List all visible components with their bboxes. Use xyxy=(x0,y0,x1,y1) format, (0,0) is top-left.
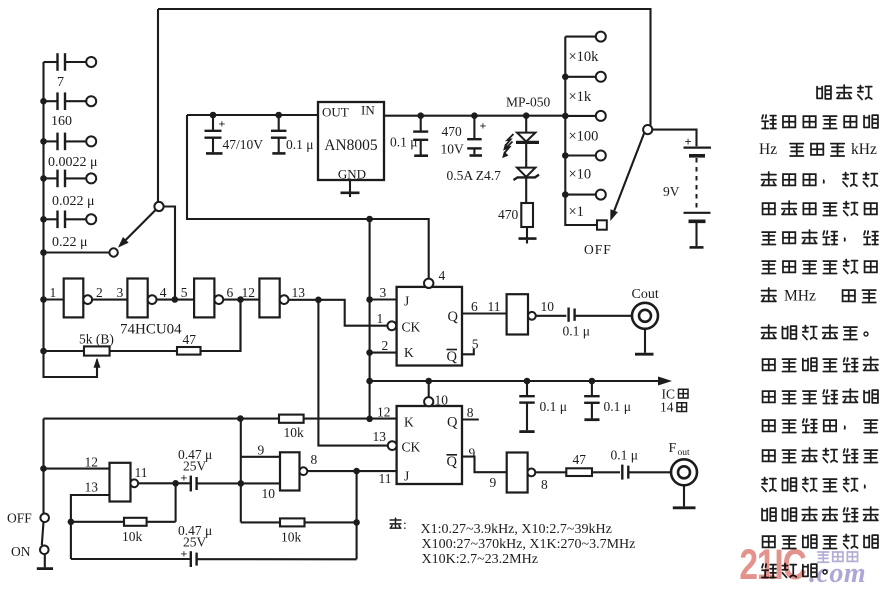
svg-text:9V: 9V xyxy=(663,184,680,199)
node OFF contact switch S2 xyxy=(40,514,49,523)
wire U4a output xyxy=(138,482,190,484)
capacitor C14 0.47u 25V xyxy=(178,447,212,491)
resistor R2 47 xyxy=(177,332,201,355)
svg-text:8: 8 xyxy=(541,477,548,492)
inverter U1a xyxy=(64,279,92,318)
watermark dianziwang xyxy=(818,552,858,562)
svg-text:13: 13 xyxy=(373,429,387,444)
wire ON/OFF power branch xyxy=(42,419,44,514)
capacitor C1 7 xyxy=(44,53,97,90)
ground Fout xyxy=(673,485,696,508)
svg-text:MHz: MHz xyxy=(784,288,816,305)
svg-text:CK: CK xyxy=(402,320,421,335)
capacitor C2 160 xyxy=(44,92,97,129)
svg-text:0.1 μ: 0.1 μ xyxy=(540,399,568,414)
wire drop to FF2 clock xyxy=(318,300,387,446)
flip-flop U3b JK xyxy=(397,406,462,484)
svg-text:kHz: kHz xyxy=(851,141,877,158)
node switch pole S1b xyxy=(643,125,652,134)
node pin13 junction xyxy=(315,297,322,304)
capacitor C4 0.022 μ xyxy=(44,170,97,209)
svg-text:13: 13 xyxy=(292,285,306,300)
node rail junctions xyxy=(425,378,432,385)
svg-text:F: F xyxy=(669,441,677,456)
capacitor C11 0.1u xyxy=(519,381,567,432)
svg-text:47/10V: 47/10V xyxy=(223,137,264,152)
connector J1 Cout xyxy=(632,287,659,329)
gate U4a xyxy=(110,463,139,502)
battery BT1 9V xyxy=(663,135,711,247)
wire U4b output to FF2 J xyxy=(307,470,396,472)
svg-text:X1:0.27~3.9kHz, X10:2.7~39kHz: X1:0.27~3.9kHz, X10:2.7~39kHz xyxy=(421,522,612,537)
resistor R3 10k xyxy=(279,415,304,440)
resistor R6 10k xyxy=(280,518,305,544)
svg-text:X100:27~370kHz, X1K:270~3.7M: X100:27~370kHz, X1K:270~3.7MHz xyxy=(422,537,636,552)
node pin6/12 junction xyxy=(237,296,244,303)
wire top power rail xyxy=(158,9,651,125)
svg-text:6: 6 xyxy=(471,299,478,314)
wire IN rail xyxy=(384,115,565,117)
svg-text:4: 4 xyxy=(439,268,446,283)
svg-text:11: 11 xyxy=(488,299,501,314)
svg-text:5: 5 xyxy=(181,285,188,300)
svg-text:9: 9 xyxy=(469,446,476,461)
capacitor C12 0.1u xyxy=(584,381,631,420)
node tap ×10 xyxy=(562,151,606,183)
wire pot row xyxy=(44,350,85,352)
svg-text:MP-050: MP-050 xyxy=(506,95,551,110)
node ON contact xyxy=(40,546,49,555)
wire Q1 output xyxy=(462,312,507,314)
wire chain links xyxy=(92,299,127,301)
resistor R1 470 xyxy=(498,203,533,227)
svg-text:47: 47 xyxy=(183,332,197,347)
capacitor C7 0.1u xyxy=(271,115,314,153)
svg-text:13: 13 xyxy=(85,480,99,495)
node FF1 pin4 bubble xyxy=(424,279,433,288)
svg-text:2: 2 xyxy=(382,338,389,353)
wire feedback vertical xyxy=(356,471,358,559)
svg-text:0.1 μ: 0.1 μ xyxy=(286,137,314,152)
wire inverter chain input from bus xyxy=(44,298,64,300)
svg-text:CK: CK xyxy=(402,440,421,455)
svg-text:OFF: OFF xyxy=(7,511,32,526)
svg-text:×1k: ×1k xyxy=(569,89,592,105)
wire Q1bar stub pin5 xyxy=(462,349,474,355)
connector J2 Fout xyxy=(669,441,698,485)
svg-text:7: 7 xyxy=(57,75,64,90)
ground below R1 xyxy=(519,227,537,244)
wire pin13 input loop xyxy=(71,495,110,559)
svg-text:×10k: ×10k xyxy=(569,49,600,65)
svg-text:×1: ×1 xyxy=(569,204,584,220)
svg-text:470: 470 xyxy=(498,207,519,222)
svg-text:5k (B): 5k (B) xyxy=(79,332,114,347)
wire R4 to C13 xyxy=(592,471,620,473)
wire Q2bar to buffer xyxy=(462,457,507,473)
wire J1 xyxy=(370,298,397,300)
wire to R4 xyxy=(535,471,566,473)
svg-text:6: 6 xyxy=(227,285,234,300)
wire multiplier tap bus xyxy=(565,37,597,225)
wire bottom return xyxy=(71,558,191,560)
node tap ×10k xyxy=(565,32,606,65)
capacitor C3 0.0022 μ xyxy=(44,133,98,170)
wire S1a wiper arm with arrow xyxy=(120,210,156,246)
watermark .com xyxy=(809,558,866,589)
gate U4b xyxy=(280,452,307,490)
wire battery feed xyxy=(652,130,696,147)
node switch pole S1a xyxy=(154,202,163,211)
svg-text:9: 9 xyxy=(258,443,265,458)
wire U1d output to flip-flop clock xyxy=(289,300,387,326)
watermark 21IC xyxy=(739,541,806,589)
svg-text:K: K xyxy=(404,415,414,430)
LED light arrows xyxy=(504,134,514,157)
svg-text:Cout: Cout xyxy=(632,287,659,302)
ground regulator GND xyxy=(341,180,360,197)
capacitor C9 470/10V xyxy=(441,116,487,157)
svg-text:1: 1 xyxy=(50,285,57,300)
node FF2 CK bubble xyxy=(388,441,397,450)
resistor R4 47 xyxy=(566,452,592,476)
svg-text:0.1 μ: 0.1 μ xyxy=(604,399,632,414)
svg-text:10k: 10k xyxy=(281,530,302,545)
inverter U1f buffer xyxy=(507,453,536,493)
wire C13 to Fout jack xyxy=(628,471,671,473)
node OFF contact xyxy=(584,220,612,257)
wire capacitor-bank common bus xyxy=(44,62,98,377)
svg-text:AN8005: AN8005 xyxy=(324,137,378,154)
ground below S2 xyxy=(37,554,53,569)
svg-text::: : xyxy=(403,517,407,532)
svg-text:×100: ×100 xyxy=(569,129,599,145)
svg-text:74HCU04: 74HCU04 xyxy=(120,322,182,338)
svg-text:+: + xyxy=(480,119,487,133)
svg-text:0.022 μ: 0.022 μ xyxy=(52,194,95,209)
svg-text:12: 12 xyxy=(242,285,256,300)
svg-text:470: 470 xyxy=(442,124,463,139)
svg-text:Q: Q xyxy=(448,309,459,325)
svg-text:+: + xyxy=(181,471,188,485)
svg-text:ON: ON xyxy=(11,544,31,559)
resistor R5 10k xyxy=(122,518,147,544)
svg-text:0.22 μ: 0.22 μ xyxy=(52,235,88,250)
wire S1b wiper arm xyxy=(612,133,644,217)
wire pin9 input xyxy=(241,456,280,458)
wire pin12 input xyxy=(44,468,110,470)
wire S2 blade xyxy=(42,522,44,545)
node pin4/5 junction xyxy=(172,296,179,303)
svg-text:160: 160 xyxy=(51,114,72,129)
svg-text:IN: IN xyxy=(361,103,375,118)
node direct contact position xyxy=(44,248,118,256)
node FF1 CK bubble xyxy=(387,321,396,330)
svg-text:out: out xyxy=(678,448,691,458)
svg-text:Q: Q xyxy=(447,349,458,365)
svg-text:21IC: 21IC xyxy=(739,541,806,589)
svg-text:OUT: OUT xyxy=(322,105,349,120)
wire S1a pole to inverter input supply drop xyxy=(164,207,175,297)
svg-text:10: 10 xyxy=(435,393,449,408)
inverter U1b xyxy=(127,279,156,318)
capacitor C5 0.22 μ xyxy=(44,211,97,251)
wire branch vertical xyxy=(240,419,242,523)
inverter U1c xyxy=(194,279,223,318)
wire to coupling cap xyxy=(536,315,567,317)
svg-text:0.5A Z4.7: 0.5A Z4.7 xyxy=(447,168,502,183)
wire K1 xyxy=(370,352,397,354)
svg-text:K: K xyxy=(404,345,414,360)
wire Q2 stub pin8 xyxy=(462,418,479,420)
text column right xyxy=(759,85,878,577)
label note xyxy=(390,518,401,528)
flip-flop U3a JK xyxy=(397,287,462,366)
inverter U1d xyxy=(259,279,288,318)
svg-text:9: 9 xyxy=(490,475,497,490)
inverter U1e buffer xyxy=(507,294,536,334)
svg-text:4: 4 xyxy=(160,285,167,300)
wire OUT rail xyxy=(187,114,318,116)
capacitor C6 47/10V xyxy=(205,115,264,153)
capacitor C13 0.1u xyxy=(611,448,639,480)
svg-text:10: 10 xyxy=(262,486,276,501)
wire C14 to U4b input xyxy=(197,482,280,484)
wire K2 row with R3 xyxy=(44,418,280,420)
svg-text:J: J xyxy=(404,294,409,309)
svg-text:+: + xyxy=(219,117,226,131)
capacitor C10 0.1u xyxy=(563,308,591,339)
potentiometer RP1 5k(B) xyxy=(79,332,114,368)
wire regulator OUT loop feeding logic rail xyxy=(187,115,429,279)
svg-text:5: 5 xyxy=(472,337,479,352)
wire R2 to pin6 node xyxy=(201,300,241,352)
svg-text:J: J xyxy=(404,469,409,484)
op-amp U2 AN8005 regulator xyxy=(318,102,384,182)
wire feedback drop pin6 xyxy=(239,300,241,352)
node tap ×1 xyxy=(562,190,606,220)
capacitor C15 0.47u 25V xyxy=(178,523,212,567)
svg-text:Q: Q xyxy=(447,454,458,470)
node tap ×100 xyxy=(562,111,606,145)
svg-text:Hz: Hz xyxy=(759,141,777,158)
svg-text:0.0022 μ: 0.0022 μ xyxy=(48,155,98,170)
svg-text:10k: 10k xyxy=(284,425,305,440)
svg-text:10V: 10V xyxy=(441,142,465,157)
capacitor C8 0.1u xyxy=(390,116,428,156)
node bus junctions xyxy=(40,98,47,105)
svg-text:0.1 μ: 0.1 μ xyxy=(390,135,418,150)
svg-text:X10K:2.7~23.2MHz: X10K:2.7~23.2MHz xyxy=(422,552,538,567)
svg-text:12: 12 xyxy=(377,405,391,420)
wire output to R5 xyxy=(175,483,177,522)
ground Cout xyxy=(635,329,654,354)
wire cap to Cout jack xyxy=(575,315,632,317)
wire left drop to range switch pole xyxy=(157,9,159,202)
svg-text:GND: GND xyxy=(338,167,366,182)
svg-text:3: 3 xyxy=(380,285,387,300)
svg-text:1: 1 xyxy=(377,311,384,326)
svg-text:47: 47 xyxy=(573,452,587,467)
svg-text:.com: .com xyxy=(809,558,866,589)
svg-text:OFF: OFF xyxy=(584,242,612,257)
svg-text:10: 10 xyxy=(541,299,555,314)
svg-text:12: 12 xyxy=(85,455,99,470)
svg-text:14: 14 xyxy=(660,400,674,415)
svg-text:Q: Q xyxy=(447,415,458,431)
wire pot to R2 xyxy=(110,350,177,352)
svg-text:0.1 μ: 0.1 μ xyxy=(563,324,591,339)
node FF2 pin10 bubble xyxy=(424,397,433,406)
svg-text:3: 3 xyxy=(117,285,124,300)
node tap ×1k xyxy=(562,72,606,105)
svg-text:×10: ×10 xyxy=(569,167,592,183)
wire supply vertical to FF inputs xyxy=(369,219,371,419)
wire Vcc distribution rail with arrow xyxy=(370,380,659,382)
svg-text:11: 11 xyxy=(379,471,392,486)
svg-text:10k: 10k xyxy=(122,529,143,544)
svg-text:2: 2 xyxy=(96,285,103,300)
wire rail to FF2 pin10 xyxy=(428,381,430,397)
node junction on logic rail xyxy=(366,216,373,223)
svg-text:8: 8 xyxy=(311,452,318,467)
svg-text:8: 8 xyxy=(467,405,474,420)
svg-text:0.1 μ: 0.1 μ xyxy=(611,448,639,463)
svg-text:11: 11 xyxy=(135,465,148,480)
